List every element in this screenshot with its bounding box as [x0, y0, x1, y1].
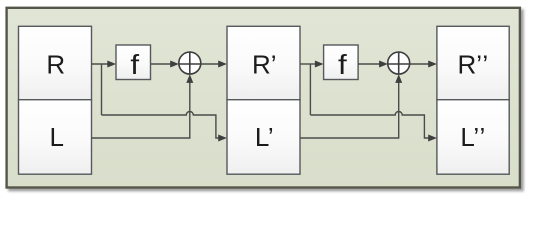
arrowhead into L' [218, 135, 227, 142]
svg-text:L’: L’ [255, 122, 274, 152]
svg-text:R: R [46, 49, 65, 79]
arrowhead up into XOR1 [186, 74, 193, 83]
XOR node X2 [388, 52, 410, 74]
arrowhead into XOR2 [379, 61, 388, 68]
register cell L' [227, 100, 300, 175]
register cell R [19, 26, 92, 99]
panel (outer bordered background of diagram) [7, 8, 520, 188]
svg-text:L’’: L’’ [460, 122, 485, 152]
svg-text:R’: R’ [252, 49, 277, 79]
function box f1 [116, 45, 151, 80]
register cell L [19, 100, 92, 175]
svg-text:f: f [130, 50, 139, 81]
wire f1 to XOR1 [151, 63, 172, 65]
function box f2 [324, 45, 359, 80]
junction tap down from R' wire [309, 64, 311, 115]
wire XOR1 to R' [201, 63, 219, 65]
svg-text:R’’: R’’ [457, 49, 488, 79]
arrowhead into f2 [315, 61, 324, 68]
wire R' to f2 [300, 63, 316, 65]
register cell R' [227, 26, 300, 99]
svg-text:L: L [49, 122, 63, 152]
junction tap down from R wire [101, 64, 103, 115]
label f1 [130, 50, 139, 81]
arrowhead up into XOR2 [395, 74, 402, 83]
svg-text:f: f [338, 50, 347, 81]
wire XOR2 to R'' [410, 63, 429, 65]
arrowhead into XOR1 [170, 61, 179, 68]
wire L out to XOR1 feed [92, 76, 190, 139]
register cell R'' [437, 26, 509, 99]
wire upper bus stage2 (R' copy to L'') with hop over XOR feed [310, 112, 429, 139]
register cell L'' [437, 100, 509, 175]
wire L' out to XOR2 feed [300, 76, 399, 139]
XOR node X1 [179, 52, 201, 74]
arrowhead into L'' [428, 135, 437, 142]
wire f2 to XOR2 [358, 63, 380, 65]
arrowhead into f1 [107, 61, 116, 68]
wire upper bus stage1 (R copy to L') with hop over XOR feed [102, 112, 220, 139]
label f2 [338, 50, 347, 81]
arrowhead into R'' [428, 61, 437, 68]
arrowhead into R' [218, 61, 227, 68]
wire R to f1 [92, 63, 109, 65]
